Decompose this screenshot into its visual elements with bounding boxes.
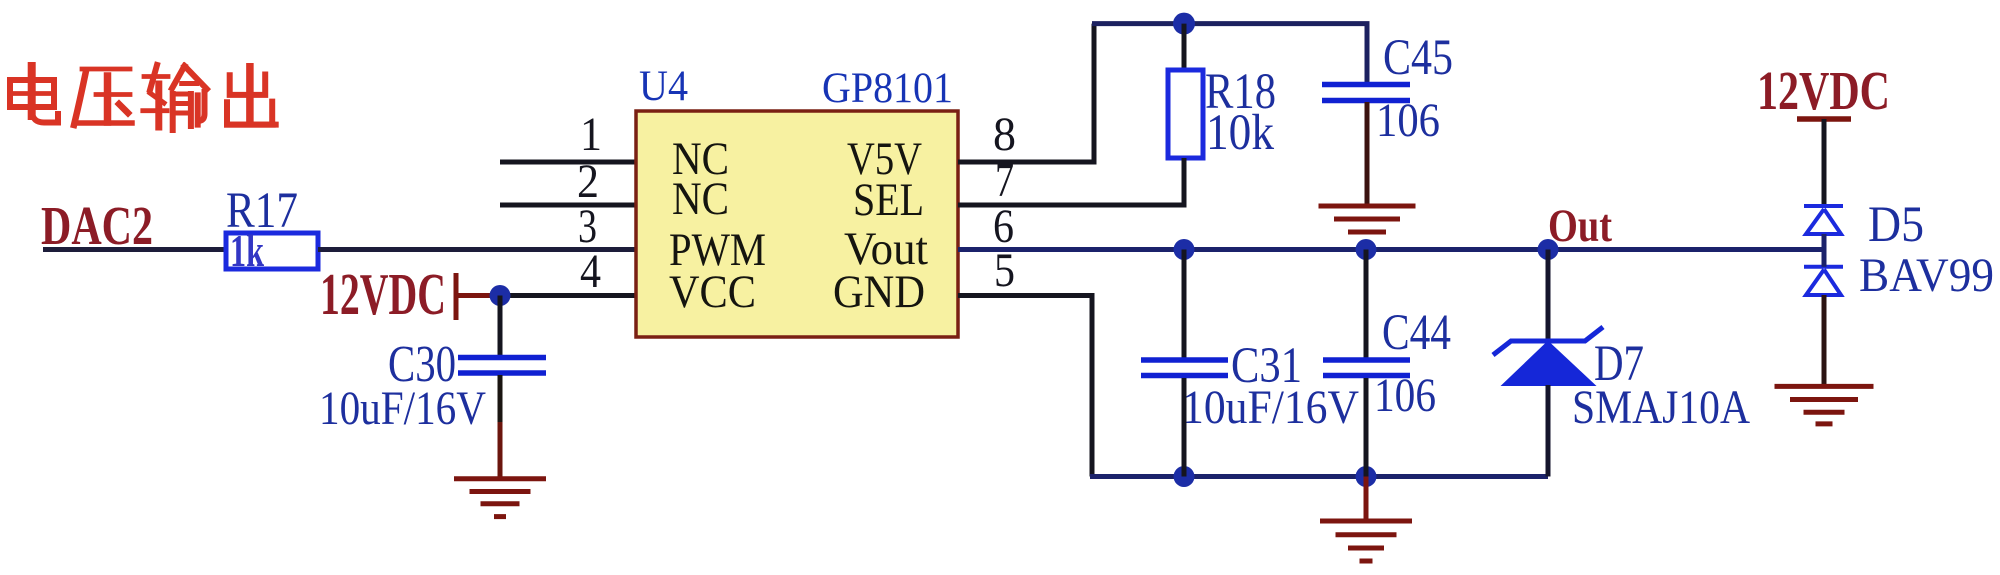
diode D5 (dual BAV99) [1804,206,1843,295]
power port 12VDC (right) [1757,60,1890,121]
svg-text:10k: 10k [1206,105,1274,161]
svg-text:GND: GND [833,266,925,318]
svg-text:12VDC: 12VDC [1757,60,1890,121]
svg-text:NC: NC [672,173,729,225]
svg-text:1k: 1k [230,225,264,276]
wire R18 bottom to U4 pin 7 (SEL) [958,158,1184,205]
svg-text:BAV99: BAV99 [1859,249,1994,302]
R17 body [226,233,318,269]
C30 lower plate [458,370,546,376]
pin names of U4 [669,133,928,318]
svg-text:4: 4 [580,245,601,298]
wire Vout rail from U4 pin 6 to D5 [958,247,1824,252]
svg-text:10uF/16V: 10uF/16V [1182,381,1359,434]
wire C31 down to bottom rail [1182,378,1187,477]
C45 upper plate [1322,82,1410,88]
svg-text:U4: U4 [639,63,688,110]
wire power bar to node [456,293,496,298]
C31 upper plate [1141,357,1228,363]
C45 lower plate [1322,98,1410,104]
svg-text:10uF/16V: 10uF/16V [319,382,486,435]
IC U4 GP8101 [636,63,958,337]
capacitor C45 [1322,30,1453,147]
svg-text:C45: C45 [1383,30,1453,86]
svg-text:GP8101: GP8101 [822,65,953,112]
wire top run to C45 [1092,24,1367,84]
wire C45 to ground [1365,102,1370,205]
wire D5 anode to ground [1822,295,1827,385]
ground symbol below C45 [1319,206,1416,244]
junction node rail/C44 [1356,239,1377,260]
C44 upper plate [1323,357,1410,363]
wire stub U4 pin 2 [500,203,636,208]
wire C44 down to bottom rail [1364,378,1369,477]
wire DAC2 net to R17 left pin [43,247,227,252]
wire top node down to R18 [1182,24,1187,70]
junction node top of R18 [1173,13,1195,35]
wire R17 right pin to U4 pin 3 (PWM) [318,247,636,252]
svg-text:SMAJ10A: SMAJ10A [1572,381,1750,434]
R18 body [1168,70,1203,158]
wire bottom ground rail [1090,474,1548,479]
C44 lower plate [1323,373,1410,379]
junction node rail/D7 (Out) [1538,239,1559,260]
title text 电压输出 (red, drawn as strokes) [10,65,276,130]
D5 lower diode triangle [1806,270,1841,296]
wire 12VDC to D5 cathode [1822,119,1827,206]
D5 upper diode triangle [1806,209,1841,234]
hanzi 出 [227,67,276,125]
svg-text:D5: D5 [1868,197,1924,253]
junction node bottom/C44 [1356,466,1377,487]
ground symbol below C44 [1320,521,1412,561]
U4 body [636,111,958,337]
pin numbers of U4 [577,108,1016,298]
svg-text:C44: C44 [1382,305,1451,361]
power port 12VDC (left) [320,261,496,327]
capacitor C30 [319,336,546,435]
ground symbol below C30 [454,479,546,517]
TVS diode D7 [1493,327,1750,434]
wire Out node down to D7 [1546,250,1551,341]
svg-text:SEL: SEL [853,174,924,226]
wire U4 pin 5 (GND) right and down [958,296,1092,477]
svg-text:DAC2: DAC2 [41,195,153,256]
wire between D5 diodes at rail [1822,234,1827,267]
D5 upper diode cathode bar [1804,204,1843,208]
resistor R18 [1168,64,1276,161]
wire bottom node to ground stem [1364,477,1369,521]
hanzi 压 [74,69,132,125]
C31 lower plate [1141,373,1228,379]
D7 triangle [1503,342,1594,385]
wire node down to C30 [498,296,503,356]
hanzi 电 [10,66,58,123]
wire stub U4 pin 1 [500,160,636,165]
hanzi 输 [143,65,207,130]
svg-text:1: 1 [580,108,602,161]
capacitor C44 [1323,305,1451,422]
wire stub U4 pin 4 (VCC) [500,293,636,298]
svg-text:Out: Out [1548,200,1612,252]
power bar symbol [1797,116,1851,122]
power bar symbol [454,273,459,320]
wire rail node down to C31 [1182,250,1187,359]
svg-text:VCC: VCC [669,266,756,318]
wire U4 pin 8 (V5V) right and up [958,24,1094,162]
C30 upper plate [458,355,546,361]
ground symbol below D5 [1775,386,1874,424]
resistor R17 [226,183,318,276]
D7 cathode bar (bent) [1493,327,1603,355]
junction node rail/C31 [1174,239,1195,260]
wire rail node down to C44 [1364,250,1369,359]
junction node bottom/C31 [1174,466,1195,487]
junction node pin4 / 12VDC / C30 [490,285,511,306]
wire C30 to ground stem [498,375,503,422]
wire D7 anode to bottom rail [1546,385,1551,477]
capacitor C31 [1141,338,1359,434]
D5 lower diode cathode bar [1804,265,1843,269]
svg-text:12VDC: 12VDC [320,261,446,327]
